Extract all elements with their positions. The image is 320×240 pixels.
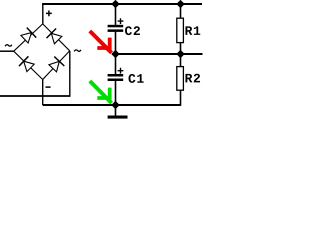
- wire C2 bottom lead: [115, 32, 117, 54]
- label R2: [185, 74, 200, 83]
- junction node dot top C2: [111, 0, 119, 8]
- capacitor C2 polarity +: [118, 18, 124, 24]
- wire R1 bottom lead: [180, 43, 182, 54]
- bridge rectifier diamond upper-left arm: [14, 24, 43, 51]
- wire AC bottom route from left edge: [0, 95, 70, 97]
- wire mid rail: [116, 53, 203, 55]
- junction node dot mid R1/R2: [176, 50, 184, 58]
- capacitor C1 plate top: [108, 74, 124, 77]
- ground bar: [108, 116, 128, 119]
- capacitor C2 plate bottom: [108, 29, 124, 32]
- capacitor C1 polarity +: [118, 68, 124, 74]
- wire C1 top lead: [115, 54, 117, 74]
- wire AC route up to bridge right node: [69, 51, 71, 97]
- junction node dot ground: [111, 101, 119, 109]
- capacitor C2 plate top: [108, 25, 124, 28]
- bridge rectifier diamond lower-right arm: [43, 51, 70, 80]
- bridge rectifier diamond lower-left arm: [14, 51, 43, 79]
- wire C2 top lead: [115, 4, 117, 25]
- label C2: [125, 26, 140, 35]
- ground stub: [115, 105, 117, 116]
- green arrow pointing to ground node: [90, 81, 112, 103]
- label - at bridge negative output: [46, 86, 51, 88]
- label ~ AC right: [74, 50, 81, 52]
- bridge rectifier diamond upper-right arm: [43, 24, 70, 51]
- junction node dot top R1: [176, 0, 184, 8]
- label C1: [129, 74, 144, 83]
- label + at bridge positive output: [46, 11, 52, 17]
- wire R2 bottom riser: [180, 90, 182, 106]
- resistor R2 body: [177, 67, 184, 91]
- label ~ AC left: [5, 45, 12, 47]
- wire top rail: [42, 3, 202, 5]
- wire bridge bottom vertex down: [42, 80, 44, 106]
- wire R2 top lead: [180, 54, 182, 67]
- diode D2 upper-right arm (conducts toward +): [47, 29, 62, 44]
- diode D3 lower-left arm (conducts toward AC left): [19, 56, 34, 71]
- wire bottom rail: [43, 104, 181, 106]
- wire R1 top lead: [180, 4, 182, 18]
- capacitor C1 plate bottom: [108, 79, 124, 82]
- diode D1 upper-left arm (conducts toward +): [21, 28, 36, 43]
- wire AC left input to bridge left node: [0, 50, 14, 52]
- resistor R1 body: [177, 18, 184, 42]
- junction node dot mid C2/C1: [111, 50, 119, 58]
- diode D4 lower-right arm (conducts toward AC right): [49, 57, 64, 72]
- wire bridge top vertex up to top rail: [42, 4, 44, 24]
- wire C1 bottom lead: [115, 81, 117, 105]
- red arrow pointing to + smoothing node: [90, 31, 112, 53]
- label R1: [185, 26, 200, 35]
